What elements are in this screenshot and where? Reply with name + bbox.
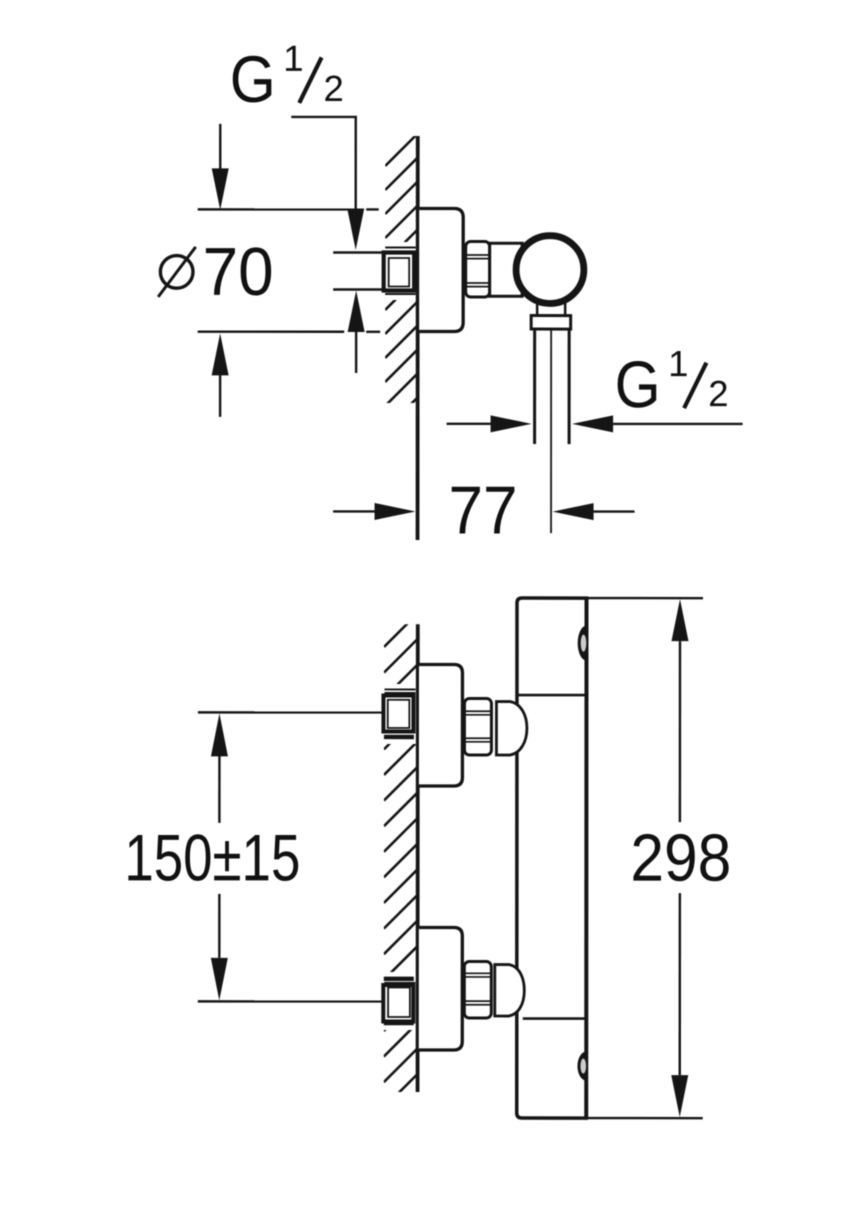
lower wall socket [384, 977, 414, 981]
hole in hatch for wall socket [377, 242, 419, 300]
leader for G 1/2 top [291, 117, 356, 209]
wall hatch (top figure) [385, 131, 420, 430]
svg-text:298: 298 [630, 821, 731, 896]
svg-text:G: G [230, 42, 276, 116]
svg-text:1: 1 [283, 38, 303, 79]
dim Ø70 lower arrow [212, 333, 229, 375]
screw blob bottom [577, 1052, 586, 1081]
label G 1/2 (right, hose) [615, 343, 729, 421]
escutcheon (top figure) [419, 208, 463, 331]
outlet collar [531, 316, 571, 330]
lower hex nut [464, 962, 491, 1019]
hose G1/2 dimension arrows [447, 423, 493, 425]
svg-text:2: 2 [708, 373, 728, 414]
hose centerline [550, 329, 552, 533]
dim 150±15 [198, 711, 383, 713]
union hex nut (top figure) [466, 242, 490, 298]
outlet neck [536, 302, 539, 316]
dim Ø70 upper arrow [219, 124, 221, 169]
upper wall socket [384, 688, 415, 690]
lower dome union on body [495, 965, 525, 1017]
wall surface line (bottom figure) [416, 624, 420, 1092]
upper hex nut [464, 699, 491, 756]
dim 77 arrows [333, 510, 375, 512]
svg-text:2: 2 [323, 68, 343, 109]
dim 298 [587, 597, 704, 599]
supply pipe stub in wall [333, 251, 386, 254]
escutcheon upper (bottom figure) [419, 664, 463, 786]
G1/2 pipe arrows at wall [348, 290, 365, 332]
label Ø70 [158, 234, 274, 310]
label G 1/2 (top left) [230, 38, 344, 116]
wall socket square [384, 252, 415, 290]
extension line bottom of escutcheon [198, 330, 344, 332]
wall socket flange lines [385, 246, 416, 248]
body cap parting lines [517, 694, 587, 697]
wall hatch (bottom figure) [384, 611, 420, 1133]
escutcheon lower (bottom figure) [419, 927, 463, 1050]
thermostat body [517, 598, 587, 1118]
holes in hatch for sockets [377, 684, 420, 744]
svg-text:G: G [615, 347, 661, 421]
extension line top of escutcheon [198, 208, 348, 210]
svg-text:77: 77 [449, 473, 518, 549]
shower hose pipe [533, 329, 536, 444]
screw blob top [578, 626, 587, 661]
wall surface line (top figure) [416, 136, 420, 540]
svg-text:70: 70 [203, 234, 274, 310]
upper dome union on body [496, 702, 527, 756]
valve body circle [516, 236, 584, 304]
svg-text:1: 1 [668, 343, 688, 384]
svg-text:150±15: 150±15 [124, 820, 300, 894]
valve inlet connector [490, 243, 523, 296]
